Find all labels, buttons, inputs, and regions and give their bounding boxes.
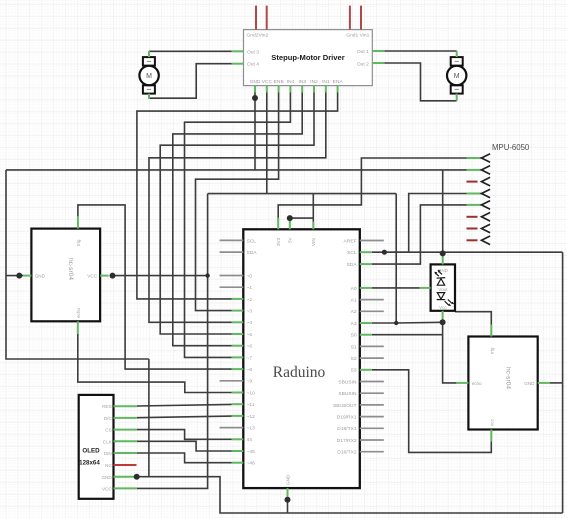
MPU-6050 pin 8 (unconnected red) xyxy=(467,236,491,245)
svg-text:Vcc: Vcc xyxy=(439,305,447,310)
wire: right edge vertical x=562.6 from SCL branch row down to bottom rail xyxy=(562,252,564,513)
wire: right hc-sr04 GND to right edge vertical xyxy=(550,382,563,384)
svg-text:Raduino: Raduino xyxy=(273,364,326,381)
junction dot driver GND xyxy=(252,95,258,101)
svg-text:Gnd2Vin2: Gnd2Vin2 xyxy=(247,33,269,39)
svg-text:echo: echo xyxy=(472,381,482,386)
wire: A3 row from Arduino to riser and to sensor Vcc dot xyxy=(372,321,443,324)
driver top pin leg Vin1 (red) xyxy=(360,6,362,30)
svg-text:A1: A1 xyxy=(351,298,357,304)
Arduino right connected green legs SCL SDA A0 A3 S0 S3 xyxy=(360,252,372,370)
wire: 5V pin stub to dot xyxy=(289,218,291,222)
wire: Out 1 to right motor top xyxy=(384,50,456,52)
driver pin leg Out 3 xyxy=(232,50,244,52)
junction dot 5V xyxy=(287,215,293,221)
svg-text:M: M xyxy=(146,73,152,80)
svg-text:~13: ~13 xyxy=(247,426,256,432)
motor M2 bottom terminal xyxy=(451,85,463,93)
MPU-6050 pin 7 (unconnected red) xyxy=(467,224,491,233)
svg-text:IN2: IN2 xyxy=(310,79,318,85)
svg-text:Gnd1 Vin1: Gnd1 Vin1 xyxy=(346,33,369,39)
wire: A0 to sensor Vout xyxy=(372,287,420,289)
svg-text:~7: ~7 xyxy=(247,355,253,361)
svg-text:D/C: D/C xyxy=(104,416,113,421)
OLED pin labels RES D/C CS CLK DIN NC GND VCC xyxy=(101,404,112,491)
svg-text:~45: ~45 xyxy=(247,449,256,455)
driver pin leg Out 1 xyxy=(372,50,384,52)
svg-text:~9: ~9 xyxy=(247,379,253,385)
svg-text:A0: A0 xyxy=(351,286,357,292)
wire: GND vertical x=148.9 down to OLED GND row xyxy=(148,359,150,477)
svg-text:ENA: ENA xyxy=(333,79,344,85)
motor M1 body xyxy=(139,66,158,85)
wire: sensor GND drop from rail xyxy=(442,170,444,254)
Arduino right unconnected gray legs xyxy=(360,241,384,452)
svg-text:~3: ~3 xyxy=(247,309,253,315)
junction dot Arduino GND drop xyxy=(285,497,291,503)
svg-text:Stepup-Motor Driver: Stepup-Motor Driver xyxy=(271,53,344,62)
svg-text:D17/RX2: D17/RX2 xyxy=(337,438,357,444)
hc-sr04 U4 pin legs xyxy=(456,382,468,384)
wire: OLED RES to Arduino pin 11 xyxy=(137,404,232,406)
Arduino top pin legs 3V3 5V VIN (green) xyxy=(277,218,279,230)
svg-text:Out 4: Out 4 xyxy=(247,62,259,68)
driver top pin leg Vin2 (red) xyxy=(266,6,268,30)
svg-text:44: 44 xyxy=(247,437,253,443)
svg-text:VIN: VIN xyxy=(311,238,316,246)
svg-text:CS: CS xyxy=(105,428,111,433)
MPU-6050 pin 4 xyxy=(467,189,491,198)
svg-text:VCC: VCC xyxy=(102,487,112,492)
svg-text:OLED: OLED xyxy=(82,448,100,455)
motor M1 pin legs xyxy=(148,51,150,57)
svg-text:AREF: AREF xyxy=(344,238,357,244)
wire: GND rail from left edge to MPU pin2 xyxy=(6,169,467,171)
svg-text:3V3: 3V3 xyxy=(276,237,281,246)
motor M1 terminal ticks xyxy=(147,60,151,62)
IR sensor pin legs xyxy=(442,255,444,264)
svg-text:~46: ~46 xyxy=(247,461,256,467)
svg-text:SBUSIN: SBUSIN xyxy=(338,379,357,385)
hc-sr04 U4 (right) box xyxy=(468,337,537,430)
wire: SDA to MPU pin5 xyxy=(372,205,467,264)
MPU-6050 pin 3 (unconnected red) xyxy=(467,177,491,186)
svg-text:~10: ~10 xyxy=(247,390,256,396)
wire: left hc-sr04 trig to Arduino pin 8 xyxy=(78,205,232,369)
OLED pin legs (green) xyxy=(114,406,137,488)
svg-text:~2: ~2 xyxy=(247,297,253,303)
svg-text:VCC: VCC xyxy=(262,79,273,85)
hc-sr04 U3 pin legs xyxy=(23,275,31,277)
svg-text:echo: echo xyxy=(76,308,81,318)
motor M2 body xyxy=(447,66,466,85)
wire: driver ENB to Arduino pin 3 xyxy=(196,92,279,311)
wire: OLED CLK to Arduino pin 45 xyxy=(137,441,232,451)
wire: SCL to MPU pin4 xyxy=(372,194,467,253)
svg-text:GND: GND xyxy=(285,474,290,485)
stepper motor driver U1 box xyxy=(244,30,373,86)
wire: OLED D/C to Arduino pin 12 xyxy=(137,416,232,418)
svg-text:trig: trig xyxy=(490,347,495,354)
svg-text:Vout: Vout xyxy=(438,287,448,292)
Arduino left unconnected gray legs SCL SDA 0 1 9 13 xyxy=(220,240,244,427)
motor M2 (right) top terminal xyxy=(451,57,463,66)
junction dot OLED GND xyxy=(134,474,140,480)
svg-text:A2: A2 xyxy=(351,309,357,315)
svg-text:trig: trig xyxy=(76,239,81,246)
wire: 3V3 to MPU pin1 xyxy=(278,158,466,221)
svg-text:hc-sr04: hc-sr04 xyxy=(67,258,74,280)
wire: S0 row to sensor Vcc vertical xyxy=(372,334,443,336)
wire: OLED GND row to drop x=220 to bottom rail xyxy=(137,477,563,513)
OLED pin leg NC (red, unconnected) xyxy=(114,464,137,466)
wire: Out 4 to left motor bottom xyxy=(149,64,232,98)
MPU-6050 pin 5 xyxy=(467,201,491,210)
svg-text:GND: GND xyxy=(250,79,261,85)
junction dot hc-sr04 left VCC xyxy=(110,273,116,279)
wire: sensor Vcc vertical down to right hc-sr04 left pin row xyxy=(443,322,457,383)
junction dot hc-sr04 left GND xyxy=(16,273,22,279)
wire: Arduino GND pin drop to bottom rail xyxy=(287,500,289,513)
junction dot sensor Vcc xyxy=(440,319,446,325)
wire: driver IN2 to Arduino pin 5 xyxy=(160,92,314,334)
wire: right hc-sr04 top pin to sensor corner xyxy=(455,312,491,325)
motor M2 pin legs xyxy=(456,51,458,57)
svg-text:~6: ~6 xyxy=(247,344,253,350)
motor M1 bottom terminal xyxy=(143,85,155,93)
MPU-6050 pin 2 xyxy=(467,166,491,175)
wire: OLED DIN to Arduino pin 46 xyxy=(137,453,232,463)
svg-text:S3: S3 xyxy=(351,368,357,374)
junction dot sensor GND xyxy=(440,250,446,256)
Arduino U2 box xyxy=(243,229,359,488)
svg-text:hc-sr04: hc-sr04 xyxy=(505,367,512,389)
svg-text:IN3: IN3 xyxy=(298,79,306,85)
IR sensor LED glyph xyxy=(437,293,452,305)
svg-text:~12: ~12 xyxy=(247,414,256,420)
svg-text:RES: RES xyxy=(102,404,111,409)
svg-text:Out 3: Out 3 xyxy=(247,49,259,55)
Arduino right pin labels xyxy=(333,238,357,455)
wire: GND left drop x=6 down then right to x=148.9 xyxy=(6,170,149,359)
svg-text:Out 1: Out 1 xyxy=(357,49,369,55)
svg-text:SDA: SDA xyxy=(247,250,258,256)
wire: driver IN1 to Arduino pin 4 xyxy=(149,92,326,322)
svg-text:S1: S1 xyxy=(351,344,357,350)
svg-text:ENB: ENB xyxy=(274,79,284,85)
wire: SCL branch to right edge xyxy=(384,251,562,253)
driver bottom pin legs (green) xyxy=(255,86,338,93)
svg-text:M: M xyxy=(454,73,460,80)
svg-text:S2: S2 xyxy=(351,356,357,362)
wire: OLED CS to Arduino pin 44 xyxy=(137,430,232,440)
svg-text:MPU-6050: MPU-6050 xyxy=(492,143,530,152)
IR sensor photodiode glyph xyxy=(435,271,445,285)
wire: 5V jog to VIN riser xyxy=(290,217,314,219)
svg-text:5V: 5V xyxy=(288,236,293,243)
svg-text:SCL: SCL xyxy=(247,238,257,244)
svg-text:~8: ~8 xyxy=(247,367,253,373)
wire: driver IN3 to Arduino pin 6 xyxy=(173,92,302,346)
junction dot VCC drop at hc-sr04 branch xyxy=(205,273,209,277)
wire: VCC line y=193.6 from x=207.6 to A3 riser xyxy=(208,193,397,195)
svg-text:Out 2: Out 2 xyxy=(357,61,369,67)
wire: driver GND pin down to rail xyxy=(254,92,256,170)
driver top pin leg Gnd2 (red) xyxy=(255,6,257,30)
svg-text:SCL: SCL xyxy=(347,250,357,256)
hc-sr04 U3 (left) box xyxy=(31,229,100,322)
driver pin leg Out 4 xyxy=(232,63,244,65)
wire: left hc-sr04 GND to left vertical xyxy=(6,275,23,277)
svg-text:D19/RX1: D19/RX1 xyxy=(337,415,357,421)
driver top pin leg Gnd1 (red) xyxy=(349,6,351,30)
driver pin leg Out 2 xyxy=(372,62,384,64)
svg-text:IN1: IN1 xyxy=(322,79,330,85)
motor M1 (left) top terminal xyxy=(143,57,155,66)
svg-text:~1: ~1 xyxy=(247,285,253,291)
svg-text:vcc: vcc xyxy=(490,418,495,426)
junction dot SCL branch xyxy=(382,250,387,255)
svg-text:GND: GND xyxy=(35,274,46,279)
wire: VCC drop x=207.6 down to OLED VCC row xyxy=(137,194,208,489)
svg-text:A3: A3 xyxy=(351,321,357,327)
svg-text:D16/TX2: D16/TX2 xyxy=(337,450,357,456)
Arduino left connected green legs 2-8,10,11,12,44,45,46 xyxy=(232,299,244,463)
svg-text:CLK: CLK xyxy=(103,439,113,444)
svg-text:NC: NC xyxy=(105,463,112,468)
OLED U5 box xyxy=(79,395,114,499)
svg-text:128x64: 128x64 xyxy=(79,460,100,467)
wire: VCC branch to left hc-sr04 VCC xyxy=(113,275,208,277)
svg-text:GND: GND xyxy=(524,381,535,386)
svg-text:SBUSOUT: SBUSOUT xyxy=(333,403,357,409)
wire: driver IN4 to Arduino pin 7 xyxy=(185,92,291,357)
svg-text:SBUSIN: SBUSIN xyxy=(338,391,357,397)
svg-text:~0: ~0 xyxy=(247,273,253,279)
wire: S3 to right hc-sr04 bottom pin xyxy=(372,370,492,453)
svg-text:S0: S0 xyxy=(351,333,357,339)
wire: Out 3 to left motor top xyxy=(149,50,232,52)
MPU-6050 pin 1 (connector fork) xyxy=(467,154,491,163)
svg-text:~5: ~5 xyxy=(247,332,253,338)
svg-text:~11: ~11 xyxy=(247,402,255,408)
wire: driver VCC pin down to VCC line xyxy=(266,92,268,194)
svg-text:~4: ~4 xyxy=(247,320,253,326)
svg-text:DIN: DIN xyxy=(104,451,112,456)
driver bottom pin labels GND VCC ENB IN4 IN3 IN2 IN1 ENA xyxy=(250,79,344,85)
svg-text:D18/TX1: D18/TX1 xyxy=(337,426,357,432)
junction dot A3 riser xyxy=(394,321,398,325)
motor M2 terminal ticks xyxy=(455,60,459,62)
Arduino left pin labels xyxy=(247,238,258,466)
wire: left hc-sr04 echo to Arduino pin 10 xyxy=(78,334,232,393)
wire: Out 2 to right motor bottom xyxy=(384,63,456,101)
svg-text:GND: GND xyxy=(101,475,112,480)
IR sensor U6 box xyxy=(431,264,455,310)
svg-text:IN4: IN4 xyxy=(287,79,295,85)
wire: driver ENA to Arduino pin 2 xyxy=(137,92,338,299)
Arduino bottom pin leg GND (green) xyxy=(287,488,289,500)
MPU-6050 pin 6 (unconnected red) xyxy=(467,213,491,222)
wire: VIN riser x=313.3 xyxy=(312,194,314,230)
wire: A3 riser x=396.2 down to A3 row xyxy=(395,194,397,323)
svg-text:VCC: VCC xyxy=(87,274,97,279)
svg-text:SDA: SDA xyxy=(347,262,358,268)
